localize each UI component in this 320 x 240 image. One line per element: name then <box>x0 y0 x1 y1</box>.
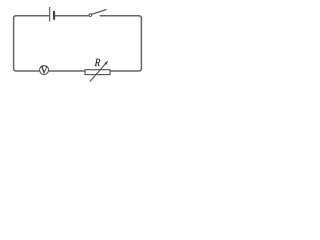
switch pivot circle <box>89 14 92 17</box>
svg-text:R: R <box>93 57 100 69</box>
rheostat box R <box>85 70 110 75</box>
wire: switch contact to top-right corner, down right side, to rheostat <box>100 16 142 71</box>
switch lever <box>92 10 107 15</box>
wire: battery negative plate to switch pivot <box>54 15 89 17</box>
battery long plate (+) <box>49 7 51 22</box>
battery short plate (-) <box>53 11 55 20</box>
wire: top-left segment from battery positive plate to top-left corner, down left side, to voltmeter <box>14 16 50 71</box>
wire: voltmeter to rheostat box <box>49 70 85 72</box>
rheostat arrow shaft <box>90 63 106 81</box>
voltmeter circle <box>40 66 49 75</box>
rheostat arrowhead <box>105 61 108 64</box>
svg-text:V: V <box>41 65 49 76</box>
